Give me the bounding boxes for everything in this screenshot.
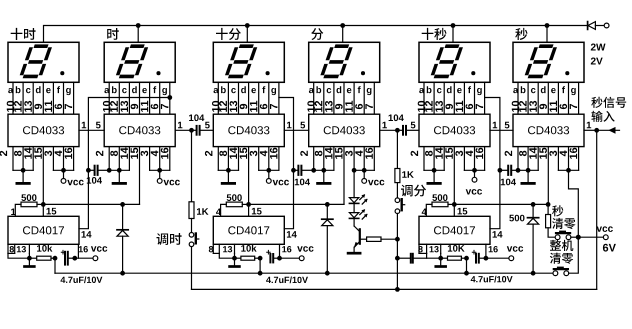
label C6 4.7uF/10V [266, 277, 308, 284]
label 6V [603, 244, 616, 252]
wire vcc bar U1 [53, 169, 73, 171]
labels segments a-g DS5 [419, 86, 482, 95]
ground por (U9) [436, 258, 446, 266]
label pin14 (U9) [493, 231, 503, 238]
ground U5 [428, 170, 440, 183]
terminal vcc U1 [61, 170, 66, 183]
label pin15 (U8) [252, 208, 262, 215]
node por junction (U8) [232, 256, 237, 261]
IC U1 CD4033 [8, 114, 79, 146]
node C8 junction [395, 256, 400, 261]
node cap pin16 junction (U8) [277, 256, 282, 261]
terminal vcc (U7) [75, 256, 98, 261]
wire pin15 U5 [453, 147, 455, 205]
label pin5 U5 [411, 122, 416, 129]
label 10k (U9) [448, 245, 465, 252]
wire vcc bar U3 [259, 169, 279, 171]
label 500 (U8) [227, 194, 242, 201]
wire minutes reset line [249, 203, 344, 205]
wire pin13 drop (U8) [234, 253, 236, 258]
capacitor 4.7uF (U7) [61, 250, 75, 265]
node U9 clock junction [498, 168, 503, 173]
wire pin16 drop (U7) [77, 244, 79, 258]
wire U6 vcc feed [569, 170, 579, 237]
wire pin15 U4 [343, 147, 345, 205]
wire pin15 U2 [139, 147, 141, 205]
wire R7 to SW3 [548, 228, 555, 237]
wire display DS6 anode riser [546, 26, 548, 43]
label C9 4.7uF/10V [471, 276, 513, 283]
ground por (U7) [25, 258, 35, 266]
node U8 bus1 junction [258, 271, 263, 276]
label vcc (U8) [297, 246, 313, 252]
labels U2 pin numbers [96, 148, 169, 159]
ground U6 [522, 170, 534, 183]
wire 500 to reset node (U8) [242, 203, 248, 205]
terminal vcc (U9) [486, 256, 514, 261]
wire ground bar U1 [13, 169, 33, 171]
label pin1 U5 [493, 122, 497, 129]
node cap pin16 junction (U9) [484, 256, 489, 261]
wire vcc bar U5 [464, 169, 484, 171]
transistor Q1 [354, 226, 360, 248]
label 十分 [216, 28, 241, 40]
wire minutes-set node to R5 [396, 130, 398, 168]
display DS4 分 [309, 42, 380, 82]
node ground junction U4 [321, 168, 326, 173]
wire reset to pin15 (U9) [453, 204, 455, 216]
node 10k cap junction (U7) [53, 256, 58, 261]
node vcc junction U2 [157, 168, 162, 173]
wire U8 por to bus1 [259, 258, 261, 273]
label vcc U4 [368, 180, 384, 186]
label R3 1K [197, 208, 209, 215]
wire U8 pin14 riser [279, 98, 294, 229]
label C1 104 [189, 114, 204, 121]
label 秒信号 [591, 97, 626, 108]
node D1 bus junction [120, 271, 125, 276]
node D3 junction [531, 202, 536, 207]
pushbutton SW1 调时 [189, 233, 199, 290]
wire carry U2pin5-U1pin1 [79, 129, 104, 131]
wire pin13 drop (U7) [28, 253, 30, 258]
label 500 (seconds clear) [509, 215, 524, 222]
wire U6 pin1 to input node [584, 129, 597, 131]
ground U1 [17, 170, 29, 183]
wire pin8 to por node (U9) [427, 253, 441, 258]
pins 8 13 (U7) [8, 244, 29, 253]
node vcc junction U6 [566, 168, 571, 173]
wire U4 pin3 to LED1 [353, 170, 355, 197]
terminal input 秒信号输入 [597, 127, 620, 134]
label 500 (U9) [432, 194, 447, 201]
label pin16 (U9) [489, 246, 498, 252]
node C7 U6 junction [516, 168, 521, 173]
wire pin16 drop (U8) [279, 244, 281, 258]
label 清零 (master) [550, 253, 573, 264]
label 10k (U8) [241, 245, 256, 252]
label pin15 (U9) [458, 208, 468, 215]
label pin16 (U8) [282, 246, 291, 252]
resistor 500 (U7) [21, 202, 37, 207]
segment pin cells DS4 [314, 82, 375, 114]
node ground junction U3 [226, 168, 231, 173]
label C7 104 [501, 179, 516, 186]
label lamp 2V [591, 58, 603, 65]
resistor R5 1K [395, 169, 400, 183]
node U9 bus1 junction [464, 271, 469, 276]
wire minutes-set to clock bus [396, 258, 398, 289]
capacitor C1 104 [192, 126, 214, 135]
wire ground bar U3 [218, 169, 238, 171]
display DS2 时 [104, 42, 175, 82]
label vcc (supply) [597, 226, 613, 232]
label pin14 (U7) [82, 231, 92, 238]
display DS1 十时 [8, 42, 79, 82]
wire U4 pin1 to minutes-set node [380, 129, 398, 131]
node anode bus junction 5 [451, 23, 456, 28]
terminal vcc 6V [603, 235, 608, 240]
wire U9 pin14 riser [485, 98, 500, 229]
pushbutton SW3 秒清零 [555, 232, 576, 240]
wire pin8 to por node (U7) [8, 253, 29, 258]
wire 500 to reset node (U9) [448, 203, 454, 205]
wire R5 to SW2 [396, 183, 398, 198]
node hours-set junction [189, 128, 194, 133]
LED D5 [349, 209, 367, 219]
IC U3 CD4033 [213, 114, 284, 146]
node ground junction U1 [21, 168, 26, 173]
IC U6 CD4033 [513, 114, 584, 146]
labels segments a-g DS3 [214, 86, 277, 95]
capacitor C8 104 set coupling [397, 254, 426, 263]
label pin1 U1 [82, 122, 86, 129]
wire vcc bar U2 [150, 169, 170, 171]
wire clock bus2 [192, 288, 597, 290]
node ground junction U6 [526, 168, 531, 173]
segment pin cells DS6 [518, 82, 579, 114]
label vcc U2 [164, 180, 180, 186]
label pin5 U3 [205, 122, 210, 129]
label 时 [107, 28, 119, 40]
display DS5 十秒 [419, 42, 490, 82]
wire display DS3 anode riser [246, 26, 248, 43]
node Q1 base junction [395, 237, 400, 242]
label 清零 (seconds) [552, 218, 575, 229]
IC U4 CD4033 [309, 114, 380, 146]
terminal vcc U4 [362, 170, 367, 183]
label vcc (U7) [91, 246, 107, 252]
node U7 clock junction [86, 168, 91, 173]
label pin1 U2 [178, 122, 182, 129]
labels display pins DS1 [7, 101, 72, 112]
node vcc junction U1 [61, 168, 66, 173]
wire display anode bus [44, 26, 587, 43]
terminal vcc U5 [472, 170, 477, 182]
node por junction (U9) [438, 256, 443, 261]
wire LED1 to LED2 [353, 203, 355, 212]
terminal vcc (U8) [280, 256, 305, 261]
wire pin15 U3 [248, 147, 250, 205]
node C5 U4 junction [311, 168, 316, 173]
resistor 500 (U8) [226, 202, 242, 207]
wire seconds reset line [454, 203, 548, 205]
wire 500 to reset node (U7) [37, 203, 43, 205]
node 10k cap junction (U8) [258, 256, 263, 261]
labels U5 pin numbers [411, 148, 484, 159]
wire set node to R3 [191, 130, 193, 202]
node U8 clock junction [291, 168, 296, 173]
ground por (U8) [230, 258, 240, 266]
wire carry U4pin5-U3pin1 [284, 129, 308, 131]
label C3 104 [87, 177, 102, 184]
wire SW2 to C8 node [396, 239, 398, 258]
display DS3 十分 [213, 42, 284, 82]
node vcc junction U4 [362, 168, 367, 173]
lamp EL1 2W 2V [588, 22, 609, 30]
label 秒 [552, 205, 563, 216]
resistor 10k (U7) [29, 256, 55, 260]
node U6 reset junction [546, 202, 551, 207]
label 500 (U7) [21, 194, 36, 201]
label R5 1K [402, 171, 414, 178]
pushbutton SW4 整机清零 [553, 268, 569, 276]
labels U4 pin numbers [300, 148, 373, 159]
segment pin cells DS5 [424, 82, 485, 114]
diode D2 [322, 204, 333, 273]
label pin15 (U7) [47, 208, 57, 215]
wire 500 to pin4 (U9) [426, 204, 432, 216]
wire input node drop [596, 130, 598, 289]
segment pin cells DS3 [218, 82, 279, 114]
labels U3 pin numbers [205, 148, 278, 159]
labels segments a-g DS6 [513, 86, 576, 95]
pin wires U3 bottom [218, 147, 279, 171]
capacitor 4.7uF (U9) [472, 250, 486, 263]
capacitor C2 104 [397, 126, 419, 135]
pins 8 13 (U8) [209, 244, 235, 253]
wire U9 por to bus1 [466, 258, 468, 273]
wire ground bar U6 [518, 169, 538, 171]
labels display pins DS4 [307, 101, 372, 112]
wire reset to pin15 (U7) [42, 204, 44, 216]
label pin14 (U8) [287, 231, 297, 238]
label C2 104 [389, 114, 404, 121]
labels segments a-g DS2 [104, 86, 167, 95]
pin wires U1 bottom [13, 147, 74, 171]
label pin1 (U7) [11, 209, 15, 216]
wire U7 pin14 riser [79, 98, 170, 229]
wire 500 to pin1 (U7) [15, 204, 21, 216]
wire supply to terminal [578, 236, 603, 238]
node 10k cap junction (U9) [464, 256, 469, 261]
label 10k (U7) [37, 245, 52, 252]
pin wires U6 bottom [518, 147, 579, 171]
IC U8 CD4017 [213, 216, 284, 244]
label vcc (U9) [507, 246, 523, 252]
IC U2 CD4033 [104, 114, 175, 146]
pin wires U4 bottom [314, 147, 375, 171]
resistor R7 500 vertical [546, 204, 551, 227]
label pin5 U4 [300, 122, 305, 129]
wire hours reset line [43, 203, 139, 205]
label 分 [311, 28, 323, 40]
wire carry U6pin5-U5pin1 [490, 129, 513, 131]
label 十秒 [422, 28, 447, 40]
label vcc U5 [466, 189, 482, 195]
wire pin13 drop (U9) [440, 253, 442, 258]
ground U4 [318, 170, 330, 183]
labels segments a-g DS1 [8, 86, 71, 95]
IC U5 CD4033 [419, 114, 490, 146]
wire SW4 to supply [569, 237, 579, 273]
label 整机 [550, 240, 573, 251]
label 秒 [515, 28, 527, 40]
node clock input junction [594, 128, 599, 133]
wire pin8 to por node (U8) [219, 253, 234, 258]
IC U9 CD4017 [419, 216, 490, 244]
label 调时 [157, 233, 182, 245]
node reset junction (U9) [452, 202, 457, 207]
label pin5 U6 [505, 122, 510, 129]
pin wires U5 bottom [424, 147, 485, 171]
wire display DS2 anode riser [137, 26, 139, 43]
label 调分 [401, 185, 426, 197]
capacitor C5 104 [294, 166, 314, 175]
wire bus1 start drop [54, 258, 56, 273]
capacitor C3 104 [88, 166, 109, 175]
resistor R6 Q1 base [360, 237, 398, 241]
node anode bus junction 6 [545, 23, 550, 28]
label pin16 (U7) [79, 246, 88, 252]
wire reset to pin15 (U8) [248, 204, 250, 216]
node reset junction (U7) [41, 202, 46, 207]
wire reset bus1 [55, 272, 553, 274]
node D2 junction [325, 202, 330, 207]
node supply junction [576, 235, 581, 240]
ground U2 [113, 170, 125, 183]
node clock bus junction [395, 287, 400, 292]
label pin4 (U8) [216, 209, 221, 216]
node vcc junction U5 [472, 168, 477, 173]
node U4 pin3 junction [352, 168, 357, 173]
labels display pins DS3 [212, 101, 277, 112]
wire vcc bar U6 [558, 169, 578, 171]
node anode bus junction 3 [245, 23, 250, 28]
label pin5 U2 [96, 122, 101, 129]
label C4 4.7uF/10V [61, 276, 103, 283]
pins 8 13 (U9) [418, 244, 440, 253]
wire ground bar U2 [109, 169, 129, 171]
labels display pins DS5 [418, 101, 483, 112]
wire Q1 emitter to ground [353, 247, 355, 252]
ground Q1 emitter [348, 252, 360, 255]
diode D3 [528, 204, 539, 273]
label vcc U1 [67, 180, 83, 186]
labels display pins DS6 [512, 101, 577, 112]
labels display pins DS2 [103, 101, 168, 112]
node D3 bus junction [531, 271, 536, 276]
node cap pin16 junction (U7) [72, 256, 77, 261]
label lamp 2W [591, 44, 606, 51]
label pin1 U4 [383, 122, 387, 129]
capacitor 4.7uF (U8) [266, 250, 279, 263]
node minutes-set junction [395, 128, 400, 133]
capacitor C7 104 [500, 166, 518, 175]
node D1 junction [120, 202, 125, 207]
node ground junction U5 [432, 168, 437, 173]
wire display DS4 anode riser [342, 26, 344, 43]
wire vcc bar U4 [354, 169, 374, 171]
label vcc U3 [273, 180, 289, 186]
resistor 10k (U9) [441, 256, 467, 260]
wire ground bar U5 [424, 169, 444, 171]
wire ground bar U4 [314, 169, 334, 171]
LED D4 [349, 194, 367, 204]
node anode bus junction 2 [136, 23, 141, 28]
segment pin cells DS2 [109, 82, 170, 114]
labels U1 pin numbers [0, 148, 72, 159]
label pin1 U3 [287, 122, 291, 129]
wire display DS5 anode riser [452, 26, 454, 43]
resistor R3 1K [189, 202, 194, 219]
ground U3 [222, 170, 234, 183]
wire 500 to pin4 (U8) [221, 204, 227, 216]
terminal vcc U3 [266, 170, 271, 183]
node reset junction (U8) [246, 202, 251, 207]
pushbutton SW2 调分 [395, 198, 405, 239]
label pin1 U6 [587, 122, 591, 129]
node U7 riser to U2 g-line [167, 95, 172, 100]
resistor 500 (U9) [432, 202, 448, 207]
resistor 10k (U8) [235, 256, 261, 260]
display DS6 秒 [513, 42, 584, 82]
wire pin15 U1 [42, 147, 44, 205]
terminal vcc U2 [157, 170, 162, 183]
wire pin15 U6 [547, 147, 549, 205]
wire U2 pin1 to hours-set node [175, 129, 191, 131]
label C5 104 [295, 179, 310, 186]
segment pin cells DS1 [13, 82, 74, 114]
node vcc junction U3 [266, 168, 271, 173]
node ground junction U2 [117, 168, 122, 173]
wire pin16 drop (U9) [485, 244, 487, 258]
IC U7 CD4017 [8, 216, 79, 244]
labels U6 pin numbers [505, 148, 578, 159]
node D2 bus junction [325, 271, 330, 276]
label pin4 (U9) [422, 209, 427, 216]
wire R3 to SW1 [191, 219, 193, 233]
diode D1 [117, 204, 128, 273]
label 十时 [11, 28, 36, 40]
label 输入 [591, 111, 614, 122]
node C3 U2 junction [107, 168, 112, 173]
node por junction (U7) [27, 256, 32, 261]
wire LED2 to Q1 collector [353, 218, 355, 226]
pin wires U2 bottom [109, 147, 170, 171]
node anode bus junction 4 [340, 23, 345, 28]
labels segments a-g DS4 [309, 86, 372, 95]
